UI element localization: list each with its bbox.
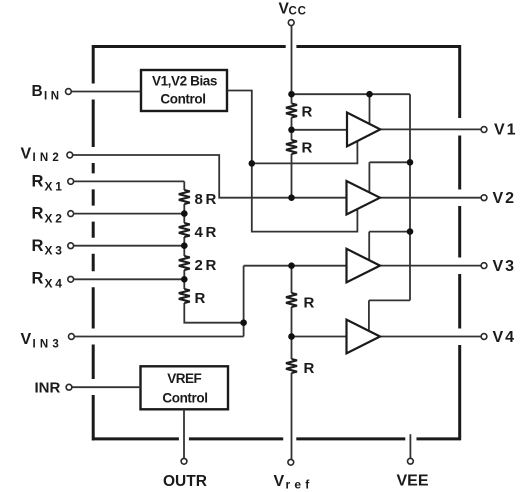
- terminal OUTR: [181, 458, 187, 464]
- svg-text:VEE: VEE: [397, 473, 429, 490]
- svg-text:Control: Control: [162, 391, 207, 406]
- wire bias control to V1,V2 bias pins: [227, 91, 357, 232]
- junction V2 input node: [288, 194, 295, 201]
- IC outline left border: [92, 45, 95, 440]
- svg-text:V3: V3: [493, 258, 517, 275]
- wire VIN3 to ladder node: [74, 266, 243, 337]
- svg-text:IN3: IN3: [33, 339, 64, 351]
- wire V3 output: [380, 265, 481, 267]
- svg-text:B: B: [32, 83, 43, 100]
- terminal RX4: [68, 276, 74, 282]
- resistor 4R: [179, 223, 190, 237]
- wire INR to VREF control: [72, 386, 141, 388]
- svg-text:R: R: [302, 140, 313, 157]
- svg-text:R: R: [32, 173, 44, 191]
- junction RX2 tap: [181, 210, 188, 217]
- svg-text:V: V: [21, 146, 32, 163]
- junction V3 input tap: [288, 262, 295, 269]
- wire ladder vertical segments: [184, 181, 243, 322]
- wire VEE stub: [409, 434, 411, 458]
- IC outline bottom border: [92, 437, 461, 440]
- svg-text:V: V: [21, 331, 32, 348]
- IC outline right border: [458, 45, 461, 440]
- svg-text:X1: X1: [45, 180, 65, 194]
- wire Vref divider vertical: [291, 266, 293, 460]
- wire V1 input from divider tap: [292, 129, 348, 131]
- wire supply feed op-amp V4: [369, 300, 410, 331]
- resistor R (VCC divider upper): [286, 104, 297, 118]
- wire RX2 tap: [74, 213, 185, 215]
- block U2: VREF Control: [141, 366, 229, 409]
- svg-text:IN: IN: [44, 91, 63, 103]
- terminal RX2: [68, 211, 74, 217]
- terminal VIN3: [69, 334, 75, 340]
- junction VCC rail: [288, 91, 295, 98]
- wire V1 output: [380, 128, 481, 130]
- junction V2 supply feed: [407, 159, 414, 166]
- svg-text:R: R: [302, 104, 313, 121]
- terminal INR: [66, 384, 72, 390]
- wire BIN to bias control: [72, 91, 142, 93]
- svg-text:IN2: IN2: [33, 152, 64, 164]
- wire V4 input from divider tap: [292, 336, 347, 338]
- svg-text:X3: X3: [45, 244, 65, 258]
- resistor 2R: [179, 256, 190, 270]
- junction bias node: [249, 160, 256, 167]
- svg-text:V4: V4: [493, 329, 517, 346]
- terminal V2: [481, 195, 487, 201]
- wire supply feed op-amp V1: [369, 94, 371, 124]
- terminal VCC: [288, 20, 294, 26]
- wire VIN2 to V2 input: [73, 155, 347, 198]
- resistor R (Vref divider lower): [286, 359, 297, 373]
- resistor 8R: [179, 190, 190, 204]
- svg-text:R: R: [32, 269, 44, 287]
- svg-text:X2: X2: [45, 212, 65, 226]
- terminal VEE: [408, 458, 414, 464]
- svg-text:V2: V2: [493, 190, 517, 207]
- svg-text:R: R: [304, 360, 315, 377]
- svg-text:INR: INR: [35, 380, 61, 397]
- wire RX1 to ladder top: [74, 180, 185, 182]
- terminal V1: [481, 127, 487, 133]
- junction ladder bottom node: [240, 319, 247, 326]
- svg-text:V: V: [274, 473, 285, 490]
- wire supply bus vertical: [409, 94, 411, 300]
- resistor R (ladder bottom): [179, 289, 190, 303]
- terminal RX1: [68, 179, 74, 185]
- wire VCC rail to op-amp supply bus: [292, 93, 411, 95]
- svg-text:V1,V2 Bias: V1,V2 Bias: [152, 74, 217, 89]
- wire V4 output: [380, 336, 481, 338]
- wire RX4 tap: [74, 278, 185, 280]
- svg-text:R: R: [195, 290, 206, 307]
- wire V2 output: [380, 197, 481, 199]
- wire node to V3 input: [244, 265, 347, 267]
- terminal Vref: [288, 459, 294, 465]
- junction RX3 tap: [181, 242, 188, 249]
- IC outline top border: [92, 45, 461, 48]
- svg-text:V1: V1: [494, 122, 518, 139]
- svg-text:ref: ref: [286, 478, 314, 492]
- terminal RX3: [68, 243, 74, 249]
- terminal BIN: [66, 89, 72, 95]
- svg-text:VREF: VREF: [167, 371, 201, 386]
- svg-text:CC: CC: [289, 6, 307, 18]
- svg-text:2R: 2R: [195, 257, 219, 274]
- svg-text:R: R: [32, 205, 44, 223]
- junction RX4 tap: [181, 276, 188, 283]
- wire supply feed op-amp V3: [369, 232, 410, 260]
- svg-text:R: R: [32, 237, 44, 255]
- op-amp V1: [347, 113, 380, 147]
- op-amp V3: [347, 249, 381, 283]
- junction V1 supply feed: [366, 91, 373, 98]
- resistor R (Vref divider upper): [286, 293, 297, 307]
- svg-text:4R: 4R: [195, 224, 219, 241]
- terminal V4: [481, 334, 487, 340]
- wire VCC vertical drop: [291, 25, 293, 197]
- svg-text:X4: X4: [45, 277, 65, 291]
- op-amp V2: [347, 181, 381, 215]
- svg-text:Control: Control: [160, 92, 205, 107]
- junction V1 input tap: [288, 127, 295, 134]
- terminal V3: [481, 263, 487, 269]
- wire VREF control to OUTR: [183, 409, 185, 458]
- svg-text:R: R: [304, 295, 315, 312]
- op-amp V4: [347, 320, 381, 354]
- block U1: V1,V2 Bias Control: [141, 70, 227, 111]
- resistor R (VCC divider lower): [286, 140, 297, 154]
- junction V4 input tap: [288, 333, 295, 340]
- svg-text:8R: 8R: [195, 191, 219, 208]
- junction V3 supply feed: [407, 228, 414, 235]
- wire RX3 tap: [74, 245, 185, 247]
- wire supply feed op-amp V2: [369, 162, 410, 192]
- terminal VIN2: [67, 152, 73, 158]
- svg-text:OUTR: OUTR: [163, 473, 207, 490]
